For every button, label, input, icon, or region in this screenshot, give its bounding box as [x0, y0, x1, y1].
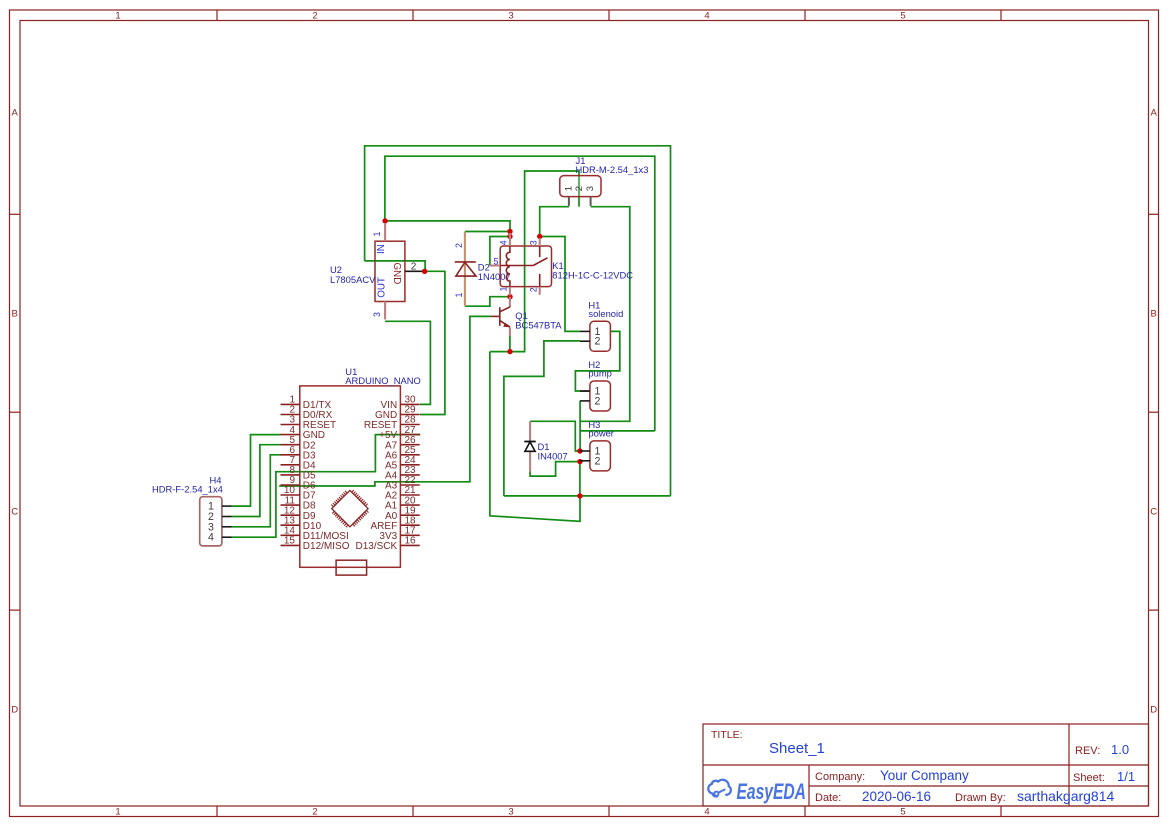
svg-text:15: 15 — [284, 536, 296, 547]
D1 triangle — [525, 442, 535, 451]
wire net GND outer loop top — [365, 146, 671, 496]
svg-text:HDR-F-2.54_1x4: HDR-F-2.54_1x4 — [152, 484, 223, 495]
svg-text:Your Company: Your Company — [880, 768, 969, 783]
svg-text:1/1: 1/1 — [1117, 769, 1135, 784]
title block — [703, 724, 1149, 806]
diode D2 1N4007 — [454, 232, 511, 307]
svg-text:1.0: 1.0 — [1111, 742, 1129, 757]
svg-text:Company:: Company: — [815, 771, 865, 783]
wire GND loop to U2 pin2 — [365, 261, 426, 271]
svg-text:D: D — [11, 705, 18, 716]
junction U2 pin1 node — [382, 218, 387, 223]
K1 pin 2 stub — [539, 287, 541, 295]
svg-text:4: 4 — [208, 532, 214, 544]
U2 pin 3 stub — [384, 302, 386, 320]
Q1 base stub — [491, 315, 499, 317]
svg-text:B: B — [1151, 309, 1157, 320]
svg-text:1: 1 — [372, 232, 382, 237]
wire J1 pin2 through J1 box (lighter) — [578, 176, 580, 197]
wire H4 pin2 to U1 D2 — [232, 445, 281, 517]
svg-text:3: 3 — [508, 807, 513, 818]
svg-text:5: 5 — [900, 807, 905, 818]
K1 coil — [506, 246, 510, 287]
wire H1 pin2 branch — [504, 341, 580, 496]
wire J1 pin3 down right side — [580, 207, 630, 422]
wire U2 pin1 to K1 pin4 — [385, 221, 510, 232]
wire U1 D6 to Q1 base — [279, 316, 491, 486]
regulator U2 L7805ACV — [330, 223, 422, 320]
svg-text:ARDUINO_NANO: ARDUINO_NANO — [345, 375, 421, 386]
U2 pin 2 stub — [405, 270, 422, 272]
relay K1 812H-1C-C-12VDC — [490, 233, 633, 296]
svg-text:2: 2 — [528, 287, 538, 292]
wire D1 anode to H3 pin2 — [530, 462, 580, 477]
wire H1 pin1 pass-through right — [575, 331, 619, 391]
svg-text:16: 16 — [405, 536, 417, 547]
svg-text:1: 1 — [115, 11, 120, 22]
junction Q1 emitter node — [507, 349, 512, 354]
svg-text:2: 2 — [595, 336, 601, 348]
svg-text:D: D — [1150, 705, 1157, 716]
svg-text:solenoid: solenoid — [588, 308, 623, 319]
D1 cathode bar — [524, 441, 535, 443]
connector H1 solenoid — [580, 299, 623, 351]
svg-text:HDR-M-2.54_1x3: HDR-M-2.54_1x3 — [576, 164, 649, 175]
wire Q1 emitter stub — [509, 335, 511, 351]
wire H4 pin3 to U1 D3 — [232, 455, 281, 527]
svg-text:TITLE:: TITLE: — [711, 729, 743, 741]
connector H4 HDR-F-2.54_1x4 — [152, 475, 232, 546]
wire H3 pin1 to 12V loop — [580, 430, 655, 432]
svg-text:REV:: REV: — [1075, 745, 1100, 757]
wire through K1 box down to emitter junction — [490, 246, 525, 351]
svg-text:5: 5 — [494, 256, 499, 266]
diode D1 IN4007 — [524, 421, 567, 471]
MCU U1 ARDUINO_NANO — [281, 366, 421, 575]
Q1 emitter stub — [509, 327, 511, 336]
H2 pin stubs — [580, 390, 590, 392]
svg-text:EasyEDA: EasyEDA — [737, 781, 806, 805]
svg-text:4: 4 — [499, 240, 509, 245]
svg-text:Sheet_1: Sheet_1 — [769, 740, 825, 757]
svg-text:C: C — [1150, 507, 1157, 518]
svg-text:812H-1C-C-12VDC: 812H-1C-C-12VDC — [552, 270, 633, 281]
EasyEDA logo — [708, 780, 806, 805]
svg-text:1: 1 — [115, 807, 120, 818]
wire 12V loop (second) — [385, 156, 655, 431]
svg-text:2: 2 — [312, 11, 317, 22]
wire J1 pin1 to K1 pin3 — [540, 207, 569, 237]
Q1 collector stub — [509, 297, 511, 308]
svg-text:3: 3 — [528, 240, 538, 245]
svg-text:2: 2 — [595, 455, 601, 467]
svg-text:L7805ACV: L7805ACV — [330, 274, 376, 285]
wire H4 pin4 to U1 +5V — [232, 435, 421, 538]
svg-text:2: 2 — [595, 395, 601, 407]
wire U2 OUT to U1 VIN — [385, 321, 430, 404]
U1 IC diamond graphic — [331, 490, 368, 527]
Q1 body — [499, 307, 501, 326]
wire GND row to right loop — [504, 495, 671, 497]
svg-text:4: 4 — [704, 807, 709, 818]
svg-text:4: 4 — [704, 11, 709, 22]
U2 pin 1 stub — [384, 223, 386, 241]
K1 pin5 line and lever — [490, 264, 500, 266]
D2 cathode bar — [455, 261, 476, 263]
transistor Q1 BC547BTA — [491, 297, 562, 336]
wire Q1 emitter junction down-left — [490, 352, 580, 522]
wire U2 pin2 to U1 GND pin29 — [420, 271, 445, 414]
svg-text:Date:: Date: — [815, 792, 841, 804]
svg-text:3: 3 — [508, 11, 513, 22]
junction H3 pin2 node — [577, 459, 582, 464]
svg-text:power: power — [588, 427, 614, 438]
connector H2 pump — [580, 359, 612, 411]
D2 triangle — [456, 262, 476, 276]
J1 pin stubs — [568, 197, 570, 206]
svg-text:2: 2 — [454, 243, 464, 248]
svg-text:2: 2 — [411, 261, 417, 272]
svg-text:A: A — [12, 108, 19, 119]
svg-text:D13/SCK: D13/SCK — [356, 541, 398, 552]
svg-text:1: 1 — [499, 287, 509, 292]
svg-text:OUT: OUT — [377, 277, 388, 298]
svg-text:pump: pump — [588, 368, 611, 379]
K1 pin 3 stub — [539, 238, 541, 247]
svg-text:sarthakgarg814: sarthakgarg814 — [1017, 788, 1115, 804]
svg-text:A: A — [1151, 108, 1158, 119]
H4 pin stubs — [222, 505, 232, 507]
svg-text:IN4007: IN4007 — [538, 451, 568, 462]
svg-text:3: 3 — [585, 186, 596, 191]
wire K1 pin5 loop — [490, 237, 510, 266]
wire D2 cathode to K1 pin4 — [465, 231, 510, 233]
wire D2 anode to Q1 collector / K1 pin1 — [465, 297, 510, 307]
svg-text:B: B — [12, 309, 18, 320]
K1 switch contacts — [539, 246, 541, 257]
svg-text:2020-06-16: 2020-06-16 — [862, 789, 931, 804]
junction K1 pin3 node — [537, 234, 542, 239]
junction H3 pin1 node — [577, 448, 582, 453]
svg-text:2: 2 — [312, 807, 317, 818]
svg-text:BC547BTA: BC547BTA — [515, 320, 562, 331]
junction K1 pin4 node a — [507, 229, 512, 234]
svg-text:GND: GND — [391, 263, 402, 285]
svg-text:3: 3 — [372, 312, 382, 317]
wire D1 cathode to H3 pin1 — [530, 421, 580, 451]
wire H2 pin2 to H3 pin1 — [580, 390, 590, 392]
svg-text:1: 1 — [454, 293, 464, 298]
svg-text:D12/MISO: D12/MISO — [303, 541, 350, 552]
wire J1 pin2 up-over to Q1 emitter — [578, 197, 580, 207]
H3 pin stubs — [580, 450, 590, 452]
U1 right pin stubs — [400, 403, 419, 405]
U1 USB connector rect — [336, 560, 367, 575]
K1 pin 1 stub — [509, 287, 511, 296]
junction U2 pin2 node — [422, 269, 427, 274]
K1 pin 4 stub — [509, 233, 511, 247]
svg-text:Sheet:: Sheet: — [1073, 772, 1105, 784]
connector J1 HDR-M-2.54_1x3 — [560, 155, 649, 206]
svg-text:5: 5 — [900, 11, 905, 22]
connector H3 power — [580, 419, 614, 471]
svg-text:2: 2 — [574, 186, 585, 191]
junction GND row node — [577, 493, 582, 498]
wire H3 pin2 down to GND row — [579, 462, 581, 496]
U1 left pin stubs — [281, 403, 300, 405]
wire K1 pin3 to H1 pin1 — [540, 237, 580, 332]
junction Q1 collector node — [507, 294, 512, 299]
svg-text:Drawn By:: Drawn By: — [955, 792, 1006, 804]
wire H4 pin1 to U1 GND pin4 — [232, 435, 281, 507]
svg-text:C: C — [11, 507, 18, 518]
svg-text:IN: IN — [376, 244, 387, 254]
svg-text:1: 1 — [564, 186, 575, 191]
junction K1 pin4 node b — [507, 234, 512, 239]
H1 pin stubs — [580, 330, 590, 332]
